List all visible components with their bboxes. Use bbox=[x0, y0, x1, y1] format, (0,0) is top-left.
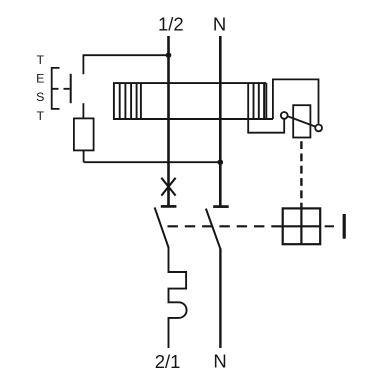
svg-text:E: E bbox=[36, 72, 44, 86]
overcurrent release (thermal + magnetic) on phase bbox=[169, 247, 187, 349]
current transformer winding right hatching bbox=[254, 83, 265, 119]
manual handle bar bbox=[343, 214, 346, 239]
resistor R test bbox=[74, 118, 94, 150]
dashed mechanical linkage to poles bbox=[168, 225, 283, 227]
wire neutral line N bbox=[219, 36, 222, 207]
svg-text:N: N bbox=[213, 14, 226, 35]
mechanism box with cross bbox=[283, 208, 321, 244]
dashed link mechanism to handle bbox=[325, 225, 334, 227]
svg-text:T: T bbox=[37, 109, 45, 123]
relay pivot contact circle left bbox=[281, 112, 288, 119]
dashed link relay to mechanism bbox=[300, 141, 302, 208]
relay contact circle right bbox=[315, 125, 322, 132]
svg-text:T: T bbox=[37, 53, 45, 67]
svg-text:N: N bbox=[213, 351, 226, 372]
wire secondary winding lower loop bbox=[248, 83, 284, 133]
svg-text:2/1: 2/1 bbox=[155, 351, 181, 372]
push-button TEST contact bar bbox=[70, 74, 72, 103]
node junction N/test bbox=[218, 159, 224, 165]
label TEST bbox=[36, 53, 44, 123]
phase pole switch blade bbox=[155, 207, 169, 247]
relay contact blade bbox=[288, 116, 315, 126]
relay coil box bbox=[293, 105, 310, 137]
node junction phase/test bbox=[166, 52, 172, 58]
neutral pole fixed contact bar bbox=[213, 205, 229, 208]
svg-text:1/2: 1/2 bbox=[158, 14, 184, 35]
current transformer core outline bbox=[114, 83, 273, 119]
wire resistor bottom bbox=[83, 150, 85, 162]
current transformer winding left hatching bbox=[120, 83, 141, 119]
svg-text:S: S bbox=[36, 90, 44, 104]
wire test circuit top bbox=[83, 55, 168, 74]
wire phase line L bbox=[167, 36, 170, 206]
phase pole fixed contact bar bbox=[161, 205, 177, 208]
neutral pole switch blade bbox=[206, 209, 220, 249]
wire test circuit bottom to N bbox=[84, 161, 221, 163]
wire neutral bottom bbox=[219, 249, 221, 349]
push-button actuator bracket bbox=[52, 68, 60, 109]
push-button actuator link (dashed) bbox=[52, 88, 70, 90]
wire test button to resistor bbox=[82, 103, 84, 118]
trip element X on phase line bbox=[161, 178, 175, 196]
wire secondary winding upper loop bbox=[273, 79, 319, 123]
